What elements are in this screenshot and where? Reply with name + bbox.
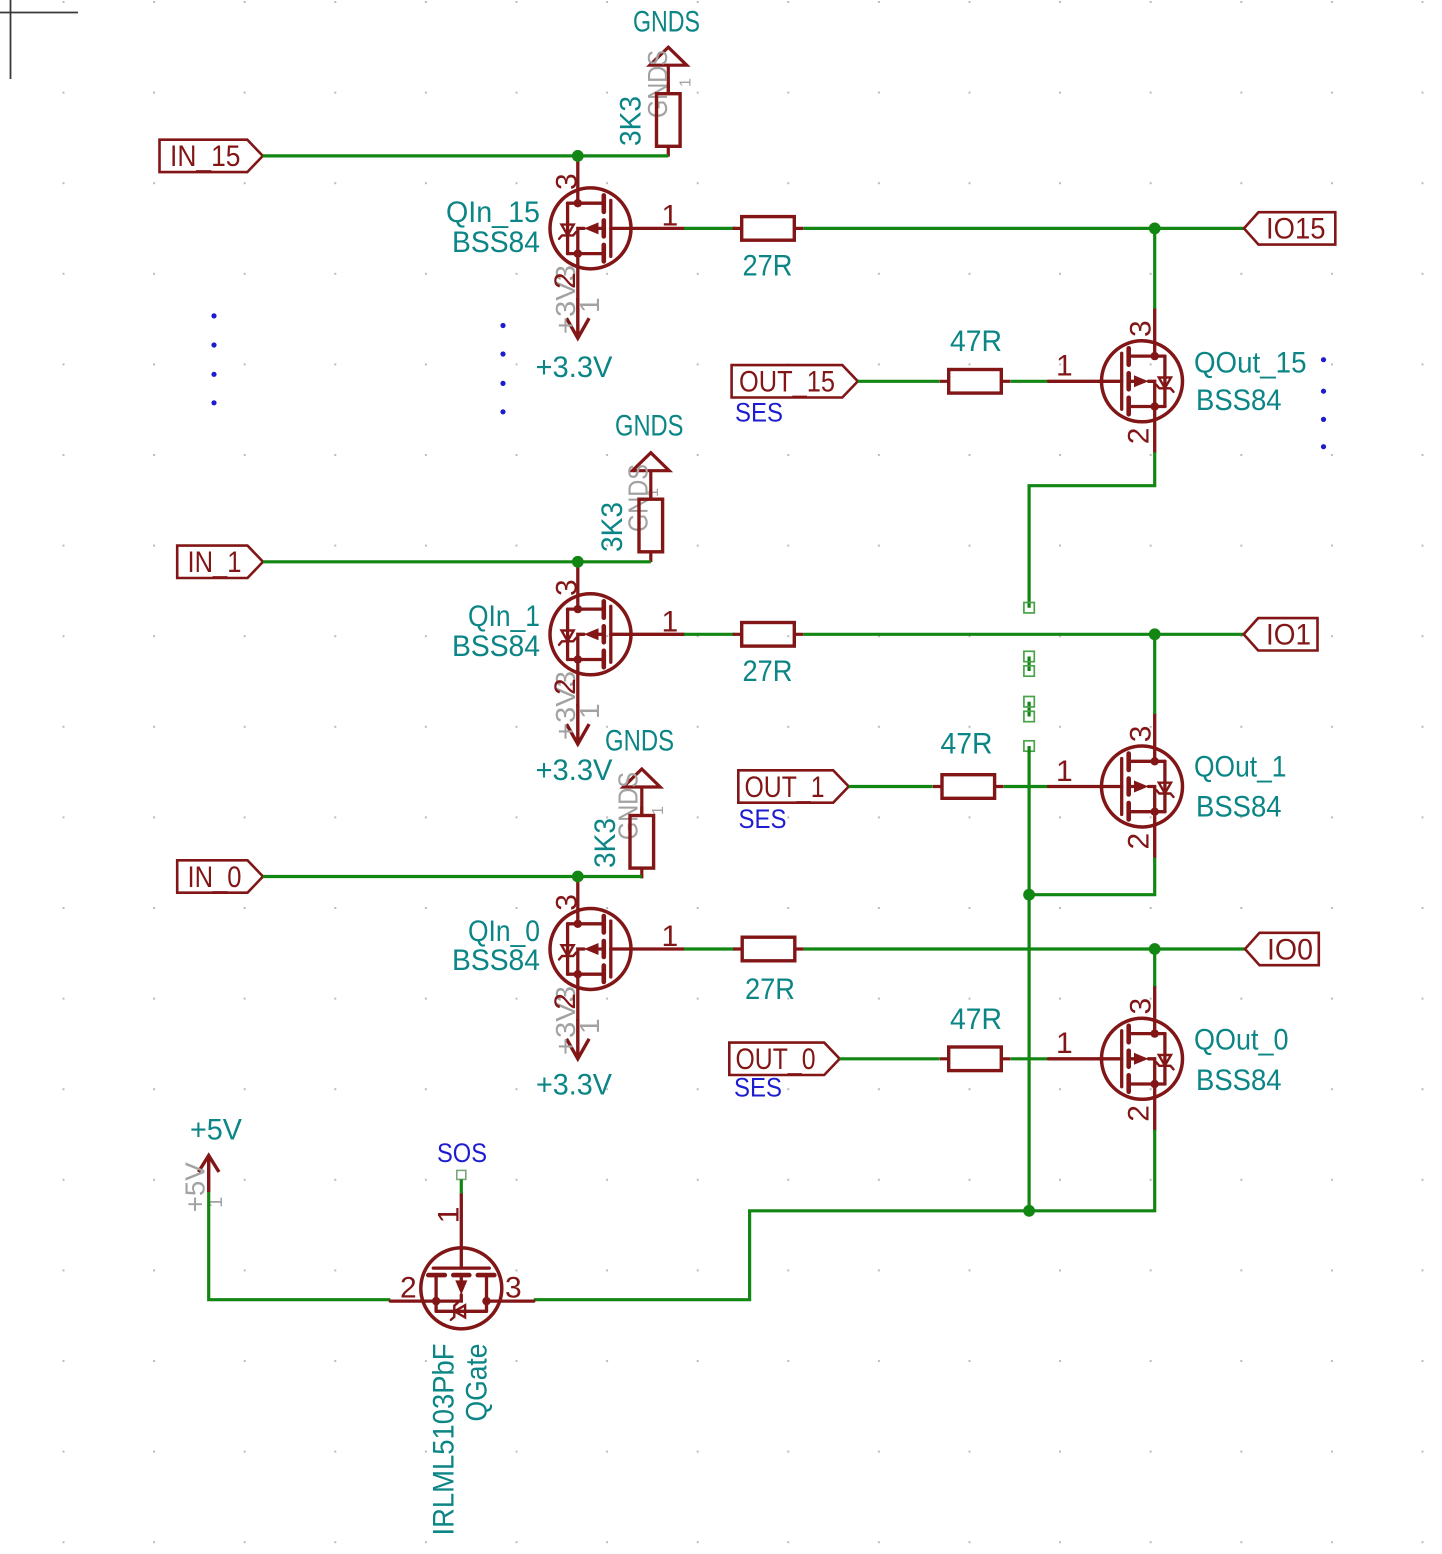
wire IO0 junction down to QOut_0 drain — [1153, 949, 1156, 986]
wire QIn_15 pin1 to 27R — [684, 227, 735, 230]
wire junction dots (drawn on top) — [572, 150, 584, 162]
global label IN_1 — [177, 546, 263, 580]
svg-text:GNDS: GNDS — [605, 725, 674, 758]
svg-text:2: 2 — [549, 993, 582, 1010]
global label OUT_15 — [732, 365, 858, 399]
transistor QOut_1 BSS84 — [1049, 714, 1183, 858]
svg-text:1: 1 — [1056, 755, 1073, 788]
power +5V — [198, 1156, 219, 1193]
global label IO15 — [1244, 212, 1335, 246]
svg-text:3: 3 — [1125, 726, 1158, 743]
svg-text:OUT_1: OUT_1 — [745, 771, 825, 804]
svg-text:27R: 27R — [743, 250, 793, 283]
label SOS anchor square — [457, 1170, 466, 1179]
svg-text:1: 1 — [662, 920, 679, 953]
transistor QIn_0 BSS84 — [550, 877, 684, 1021]
svg-text:3: 3 — [551, 579, 584, 596]
dangling stub wires x=1029 — [1027, 657, 1030, 717]
hidden power pin text +3V3 1 (under QIn_15) — [550, 265, 605, 334]
wire OUT_15 to 47R — [858, 380, 940, 383]
svg-text:1: 1 — [678, 78, 695, 87]
hidden power pin text +3V3 1 (under QIn_1) — [550, 671, 605, 740]
svg-text:QOut_15: QOut_15 — [1194, 347, 1307, 380]
resistor 47R (row OUT_1) — [933, 775, 1004, 799]
transistor QOut_0 BSS84 — [1049, 986, 1183, 1130]
svg-text:3K3: 3K3 — [615, 96, 648, 146]
wire QOut_15 source down-left dangling — [1029, 452, 1155, 607]
svg-text:2: 2 — [549, 272, 582, 289]
svg-text:IN_15: IN_15 — [170, 140, 241, 173]
svg-text:3K3: 3K3 — [596, 502, 629, 552]
wire 27R to IO0 — [804, 947, 1245, 950]
svg-text:QOut_0: QOut_0 — [1194, 1024, 1289, 1057]
svg-text:IO1: IO1 — [1266, 619, 1311, 652]
wire 27R to IO15 — [803, 227, 1244, 230]
wire IN_15 to 3K3/QIn_15 gate-drain node — [263, 154, 669, 157]
svg-text:2: 2 — [1122, 833, 1155, 850]
global label IO1 — [1244, 618, 1318, 652]
svg-text:1: 1 — [574, 297, 605, 313]
svg-text:47R: 47R — [950, 1003, 1002, 1036]
power +3.3V (under QIn_1) — [567, 704, 590, 744]
wire SOS to QGate gate — [460, 1179, 463, 1195]
svg-text:OUT_15: OUT_15 — [739, 366, 835, 399]
svg-text:1: 1 — [650, 806, 667, 815]
ground GNDS (row IN_1) — [632, 453, 669, 500]
svg-text:+3.3V: +3.3V — [536, 1069, 612, 1102]
svg-text:GNDS: GNDS — [633, 6, 700, 39]
svg-text:2: 2 — [400, 1272, 417, 1305]
svg-text:SES: SES — [734, 1073, 782, 1103]
wire QIn_1 pin1 to 27R — [684, 633, 735, 636]
svg-text:QGate: QGate — [461, 1344, 494, 1422]
power +3.3V (under QIn_0) — [567, 1019, 590, 1059]
svg-text:QIn_15: QIn_15 — [446, 196, 540, 229]
ellipsis dots column A — [211, 313, 216, 318]
hidden power pin text +5V 1 — [180, 1162, 227, 1212]
hidden power pin text +3V3 1 (under QIn_0) — [550, 986, 605, 1055]
transistor QIn_15 BSS84 — [550, 156, 684, 300]
svg-text:3: 3 — [505, 1272, 522, 1305]
svg-text:QOut_1: QOut_1 — [1194, 751, 1287, 784]
dangling end (below QOut_15) — [1024, 603, 1034, 613]
svg-text:3K3: 3K3 — [589, 818, 622, 868]
hidden power pin text GNDS 1 (row IN_15) — [642, 50, 695, 118]
resistor 47R (row OUT_15) — [940, 370, 1011, 394]
svg-text:3: 3 — [1125, 320, 1158, 337]
svg-text:+3.3V: +3.3V — [536, 351, 613, 384]
wire IN_1 to 3K3/QIn_1 node — [263, 560, 651, 563]
wire QOut_1 source to bus node — [1029, 858, 1155, 895]
svg-text:1: 1 — [433, 1207, 466, 1224]
global label OUT_0 — [729, 1043, 839, 1077]
wire IO1 junction down to QOut_1 drain — [1153, 634, 1156, 714]
global label OUT_1 — [738, 770, 848, 804]
ellipsis dots column B — [500, 323, 505, 328]
svg-text:1: 1 — [662, 605, 679, 638]
svg-text:2: 2 — [1122, 1105, 1155, 1122]
ground GNDS (row IN_15) — [650, 47, 687, 94]
ellipsis dots column C (right) — [1321, 357, 1326, 362]
svg-text:BSS84: BSS84 — [1196, 1064, 1282, 1097]
resistor R 3K3 (row IN_0) — [630, 806, 654, 878]
svg-text:OUT_0: OUT_0 — [736, 1043, 816, 1076]
svg-text:QIn_1: QIn_1 — [468, 600, 540, 633]
wire IO15 junction down to QOut_15 drain — [1153, 228, 1156, 308]
svg-text:BSS84: BSS84 — [1196, 791, 1282, 824]
resistor 27R (row IN_15) — [733, 217, 804, 241]
svg-text:1: 1 — [1056, 1027, 1073, 1060]
svg-text:27R: 27R — [745, 973, 795, 1006]
wire 47R to QOut_15 gate — [1011, 380, 1049, 383]
svg-text:2: 2 — [1122, 428, 1155, 445]
resistor R 3K3 (row IN_1) — [639, 490, 663, 562]
hidden power pin text GNDS 1 (row IN_1) — [622, 464, 662, 532]
svg-text:SOS: SOS — [437, 1138, 487, 1168]
svg-text:+3.3V: +3.3V — [536, 754, 613, 787]
resistor 47R (row OUT_0) — [940, 1047, 1011, 1071]
wire OUT_1 to 47R — [849, 785, 933, 788]
transistor QIn_1 BSS84 — [550, 562, 684, 706]
wire OUT_0 to 47R — [840, 1057, 940, 1060]
sheet border corner — [0, 0, 78, 79]
svg-text:1: 1 — [662, 200, 679, 233]
svg-text:GNDS: GNDS — [615, 410, 684, 443]
svg-text:IO15: IO15 — [1266, 213, 1326, 246]
resistor 27R (row IN_1) — [733, 623, 804, 647]
svg-text:BSS84: BSS84 — [452, 226, 540, 259]
svg-text:2: 2 — [549, 678, 582, 695]
wire 47R to QOut_0 gate — [1011, 1057, 1049, 1060]
svg-text:3: 3 — [551, 894, 584, 911]
wire 47R to QOut_1 gate — [1004, 785, 1049, 788]
wire IN_0 to 3K3/QIn_0 node — [263, 875, 642, 878]
transistor QOut_15 BSS84 — [1049, 309, 1183, 453]
ground GNDS (row IN_0) — [623, 769, 660, 816]
svg-text:BSS84: BSS84 — [452, 944, 540, 977]
global label IO0 — [1245, 933, 1319, 967]
svg-text:IRLML5103PbF: IRLML5103PbF — [428, 1344, 461, 1536]
wire QOut_0 source down to bottom rail — [534, 1130, 1155, 1300]
svg-text:SES: SES — [735, 398, 783, 428]
resistor R 3K3 (row IN_15) — [657, 84, 681, 156]
power +3.3V (under QIn_15) — [567, 298, 590, 338]
hidden power pin text GNDS 1 (row IN_0) — [613, 772, 668, 840]
global label IN_0 — [177, 860, 263, 894]
transistor QGate IRLML5103PbF — [390, 1195, 534, 1329]
svg-text:1: 1 — [645, 488, 662, 497]
svg-text:+5V: +5V — [190, 1114, 242, 1147]
svg-text:27R: 27R — [743, 655, 793, 688]
svg-text:3: 3 — [551, 173, 584, 190]
global label IN_15 — [160, 140, 263, 174]
wire +5V down and right to QGate — [209, 1192, 391, 1300]
wire 27R to IO1 — [803, 633, 1243, 636]
svg-text:47R: 47R — [950, 325, 1002, 358]
resistor 27R (row IN_0) — [733, 937, 804, 961]
svg-text:IO0: IO0 — [1267, 933, 1313, 966]
svg-text:IN_0: IN_0 — [188, 861, 242, 894]
svg-text:47R: 47R — [941, 728, 993, 761]
svg-text:3: 3 — [1125, 998, 1158, 1015]
svg-text:SES: SES — [739, 804, 787, 834]
wire bus-node vertical x=1029 — [1027, 746, 1030, 1211]
svg-text:1: 1 — [1056, 350, 1073, 383]
svg-text:1: 1 — [574, 703, 605, 719]
svg-text:IN_1: IN_1 — [188, 546, 242, 579]
wire QIn_0 pin1 to 27R — [684, 947, 735, 950]
svg-text:1: 1 — [574, 1018, 605, 1034]
svg-text:BSS84: BSS84 — [1196, 384, 1282, 417]
svg-text:BSS84: BSS84 — [452, 630, 540, 663]
